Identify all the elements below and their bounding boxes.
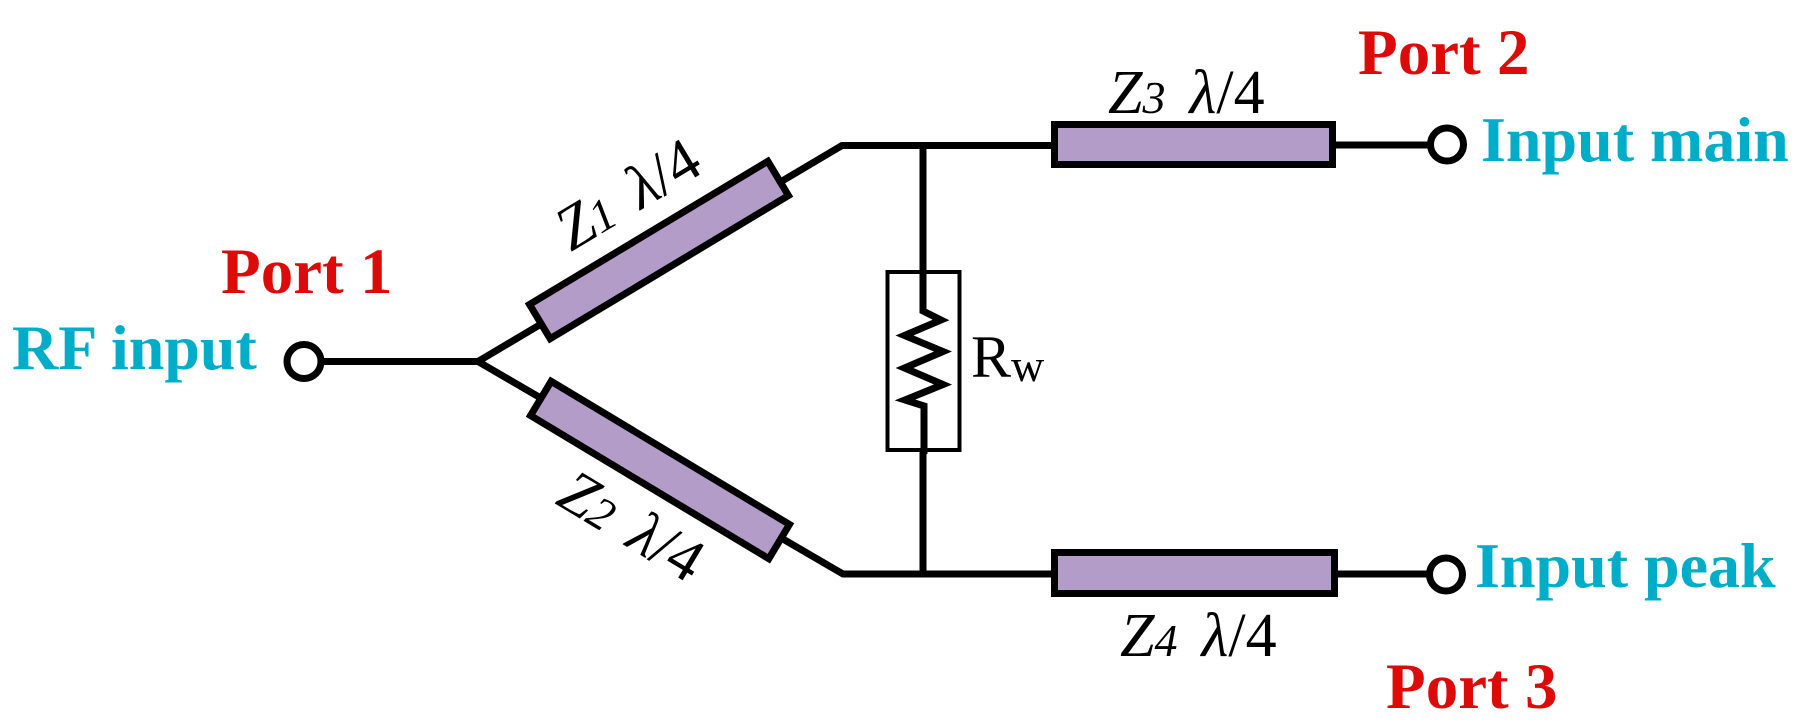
port 2 terminal <box>1431 128 1464 161</box>
svg-text:RF input: RF input <box>12 312 258 383</box>
svg-text:Port 2: Port 2 <box>1358 17 1529 89</box>
wire Z3 to port2 <box>1336 142 1432 149</box>
wire port1 to junction <box>322 358 478 365</box>
port 3 terminal <box>1430 558 1463 591</box>
resistor Rw zigzag <box>905 268 944 454</box>
wire junction to bottom corner and bottom horizontal <box>478 362 1058 575</box>
transmission line Z2 <box>531 381 790 558</box>
wire Z4 to port3 <box>1338 571 1432 578</box>
wire vertical lower (resistor to bottom bus) <box>920 403 927 574</box>
wire vertical upper (top bus to resistor) <box>920 146 927 314</box>
resistor Rw box <box>888 272 960 450</box>
transmission line Z3 <box>1055 125 1333 165</box>
wire junction to top corner and top horizontal <box>478 146 1058 362</box>
transmission line Z1 <box>530 161 789 338</box>
svg-text:Input main: Input main <box>1481 104 1789 175</box>
transmission line Z4 <box>1055 553 1335 594</box>
svg-text:Port 3: Port 3 <box>1386 651 1557 723</box>
svg-text:Input peak: Input peak <box>1475 530 1776 601</box>
svg-text:Port 1: Port 1 <box>221 236 392 308</box>
port 1 terminal <box>287 345 321 379</box>
